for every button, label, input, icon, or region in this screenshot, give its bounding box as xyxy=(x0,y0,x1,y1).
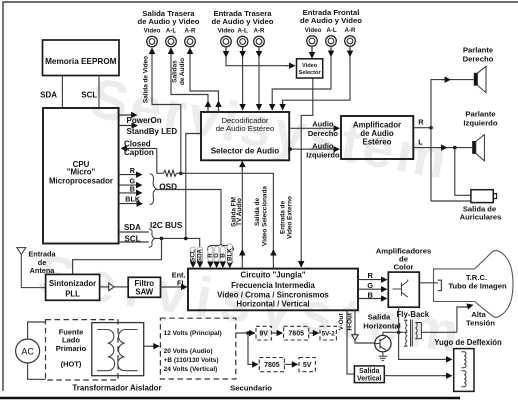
svg-text:Yugo de Deflexión: Yugo de Deflexión xyxy=(434,338,502,347)
svg-text:Selector de Audio: Selector de Audio xyxy=(211,146,280,155)
brace merging I2C bus xyxy=(149,221,183,247)
svg-text:R: R xyxy=(130,166,136,175)
antenna Entrada de Antena xyxy=(17,248,57,288)
wire StandBy LED output xyxy=(119,126,178,137)
svg-text:(HOT): (HOT) xyxy=(61,360,82,369)
svg-text:7805: 7805 xyxy=(288,331,304,338)
resistor (OSD R mix into video out) xyxy=(164,170,177,176)
svg-text:Salidas: Salidas xyxy=(171,60,178,83)
wire H-Out from jungla xyxy=(346,310,375,343)
transistor Q horizontal output xyxy=(375,332,391,352)
wire A-R out (decoder to jack) xyxy=(190,49,219,113)
svg-text:Tensión: Tensión xyxy=(466,319,495,328)
svg-text:G: G xyxy=(367,281,373,290)
wire I2C bus line xyxy=(155,238,200,247)
splitter bracket OSD to RGB xyxy=(208,244,234,251)
wire A-L out (decoder to jack) xyxy=(171,49,208,113)
svg-text:SCL: SCL xyxy=(190,249,197,262)
wire video out jack branch xyxy=(152,53,181,173)
wire rear A-L in (jack to decoder) xyxy=(242,47,244,111)
svg-text:SDA: SDA xyxy=(124,223,141,232)
box Fuente Lado Primario (HOT) dashed xyxy=(46,320,119,380)
svg-text:A-L: A-L xyxy=(326,27,337,34)
wire rear video in (jack to video selector) xyxy=(226,47,295,66)
svg-text:SDA: SDA xyxy=(197,248,204,262)
node video/CC junction xyxy=(179,172,183,176)
wire 9V to 7805 xyxy=(272,332,283,334)
wire PowerOn output xyxy=(119,115,162,125)
wire R speaker output xyxy=(413,80,473,130)
svg-text:Video Externo: Video Externo xyxy=(287,196,294,239)
svg-text:Izquierdo: Izquierdo xyxy=(306,150,340,159)
wire OSD G output xyxy=(119,176,142,185)
svg-text:SCL: SCL xyxy=(81,91,97,100)
wire arrow salida de video seleccionada (up) xyxy=(272,250,274,258)
speaker Parlante Derecho xyxy=(463,45,494,92)
svg-text:"Micro": "Micro" xyxy=(67,168,96,177)
svg-text:A-R: A-R xyxy=(254,28,266,35)
AC source xyxy=(16,339,40,363)
svg-text:7805: 7805 xyxy=(264,362,280,369)
svg-text:Memoria EEPROM: Memoria EEPROM xyxy=(45,57,117,66)
svg-text:Salida de Video: Salida de Video xyxy=(143,56,150,103)
regulator 9V dashed xyxy=(256,326,272,340)
svg-text:24 Volts (Vertical): 24 Volts (Vertical) xyxy=(164,366,218,373)
connector RCA A-L front in xyxy=(326,36,337,47)
svg-text:Salida: Salida xyxy=(359,368,379,375)
svg-text:B: B xyxy=(367,291,373,300)
svg-text:Caption: Caption xyxy=(124,148,154,157)
IC Amplificador de Audio Estereo xyxy=(341,116,413,159)
wire 12V branch down to second 7805 xyxy=(248,333,250,364)
connector RCA A-R rear in xyxy=(254,36,265,47)
node 12V junction xyxy=(246,331,250,335)
speaker Parlante Izquierdo xyxy=(463,109,497,161)
svg-text:Secundario: Secundario xyxy=(230,383,272,392)
tag G into jungla xyxy=(213,247,220,268)
wire B to color amp xyxy=(358,291,387,300)
wire G to color amp xyxy=(358,281,387,290)
svg-text:B: B xyxy=(219,253,226,258)
svg-text:12 Volts (Principal): 12 Volts (Principal) xyxy=(164,330,222,337)
CRT socket bracket xyxy=(438,280,442,291)
svg-text:A-L: A-L xyxy=(237,28,248,35)
svg-text:Selector: Selector xyxy=(299,70,322,76)
svg-text:Parlante: Parlante xyxy=(463,45,494,54)
svg-text:I2C BUS: I2C BUS xyxy=(150,221,183,230)
svg-text:9V: 9V xyxy=(259,331,268,338)
wire R to color amp xyxy=(358,271,387,280)
wire I2C to decodificador xyxy=(186,134,201,239)
regulator 5V dashed xyxy=(299,358,315,372)
node I2C junction to decoder xyxy=(184,237,188,241)
wire OSD R output xyxy=(119,166,142,175)
tag R into jungla xyxy=(207,247,214,268)
wire IF into jungla xyxy=(161,271,187,288)
svg-text:Circuito "Jungla": Circuito "Jungla" xyxy=(241,270,306,279)
svg-text:Audio: Audio xyxy=(312,141,334,150)
connector RCA A-L rear in xyxy=(237,36,248,47)
svg-text:Color: Color xyxy=(393,262,413,271)
svg-text:Fly-Back: Fly-Back xyxy=(397,310,430,319)
wire headphone L branch xyxy=(455,148,471,196)
box Salida Vertical xyxy=(354,366,384,383)
wire horizontal deflection to yoke xyxy=(399,332,451,359)
node I2C junction to tuner xyxy=(160,237,164,241)
svg-text:de Audio Estéreo: de Audio Estéreo xyxy=(216,124,275,133)
wire color amp to CRT socket xyxy=(419,282,438,284)
brace merging OSD lines xyxy=(150,174,177,205)
wire front video in (jack to video selector) xyxy=(311,46,313,58)
svg-text:Salida de: Salida de xyxy=(254,198,261,227)
svg-text:Video / Croma / Sincronismos: Video / Croma / Sincronismos xyxy=(217,290,329,299)
svg-text:de Audio y Video: de Audio y Video xyxy=(300,16,362,25)
tuner Sintonizador PLL xyxy=(46,274,100,300)
svg-text:SCL: SCL xyxy=(125,235,141,244)
svg-text:SAW: SAW xyxy=(135,288,153,297)
svg-text:BLK: BLK xyxy=(226,248,233,261)
wire selected video line (to video out jack / from jungla) xyxy=(157,173,274,268)
svg-text:Video: Video xyxy=(302,63,318,69)
wire SDA (EEPROM to CPU) xyxy=(40,76,62,108)
wire OSD B output xyxy=(119,184,142,193)
wire entrada de video externo (selector to jungla) xyxy=(279,78,312,267)
wire L speaker output xyxy=(413,138,472,150)
memory IC Memoria EEPROM xyxy=(43,40,120,76)
yoke Yugo de Deflexion xyxy=(434,338,502,391)
svg-text:de Audio y Video: de Audio y Video xyxy=(138,17,200,26)
box Secundario voltages dashed xyxy=(160,318,272,392)
connector RCA video out xyxy=(147,36,158,47)
svg-text:Auriculares: Auriculares xyxy=(460,212,502,221)
tag SCL into jungla xyxy=(190,247,197,267)
IC Decodificador de Audio Estereo / Selector de Audio xyxy=(201,112,289,160)
svg-text:Video: Video xyxy=(218,28,235,35)
svg-text:PowerOn: PowerOn xyxy=(127,116,162,125)
svg-text:Sintonizador: Sintonizador xyxy=(49,279,96,288)
svg-text:A-L: A-L xyxy=(166,28,177,35)
wire SCL from CPU xyxy=(119,235,149,244)
svg-text:Video: Video xyxy=(144,28,161,35)
wire front A-R in (jack to decoder) xyxy=(283,46,350,110)
wire vertical deflection to yoke xyxy=(384,375,451,377)
svg-text:BLK: BLK xyxy=(125,195,141,204)
svg-text:Entrada de: Entrada de xyxy=(279,201,286,234)
svg-text:Microprocesador: Microprocesador xyxy=(49,177,113,186)
svg-text:Tubo de Imagen: Tubo de Imagen xyxy=(448,282,507,291)
IC Circuito Jungla xyxy=(188,269,358,311)
wire audio izquierdo (decoder to amplifier) xyxy=(288,141,340,159)
connector RCA A-R front in xyxy=(345,36,356,47)
wire Closed Caption input xyxy=(122,140,157,174)
connector RCA video front in xyxy=(307,36,318,47)
svg-text:Derecho: Derecho xyxy=(463,55,494,64)
wire salida FM TV audio (jungla to selector) xyxy=(230,162,243,269)
svg-text:Salida: Salida xyxy=(368,313,391,322)
svg-text:R: R xyxy=(367,271,373,280)
tag B into jungla xyxy=(219,247,226,268)
wire flyback primary line xyxy=(383,331,457,333)
svg-text:+B (110/130 Volts): +B (110/130 Volts) xyxy=(164,357,219,364)
wire AC to primary (top) xyxy=(28,322,46,339)
wire 12V rail xyxy=(236,332,255,334)
tag SDA into jungla xyxy=(197,247,204,267)
svg-text:Frecuencia Intermedia: Frecuencia Intermedia xyxy=(231,281,315,290)
wire OSD BLK output xyxy=(119,195,142,204)
svg-text:5V-2: 5V-2 xyxy=(322,331,336,338)
tag BLK into jungla xyxy=(226,244,233,268)
svg-text:Parlante: Parlante xyxy=(465,109,496,118)
wire alta tension to CRT xyxy=(457,305,495,332)
svg-text:Video: Video xyxy=(305,27,322,34)
ground under horizontal transistor xyxy=(379,352,387,361)
wire SDA from CPU xyxy=(119,223,149,232)
svg-text:Izquierdo: Izquierdo xyxy=(463,119,497,128)
regulator 5V-2 dashed xyxy=(320,326,336,340)
connector group title salida trasera xyxy=(138,9,200,35)
svg-text:L: L xyxy=(418,138,423,147)
svg-text:5V: 5V xyxy=(303,362,312,369)
svg-text:de Audio: de Audio xyxy=(179,58,186,85)
svg-text:Derecho: Derecho xyxy=(308,129,338,138)
transformer Transformador Aislador xyxy=(72,323,161,393)
wire front A-L in (jack to decoder) xyxy=(272,46,331,110)
wire rear A-R in (jack to decoder) xyxy=(258,47,260,111)
node flyback junction xyxy=(397,331,401,335)
buffer triangle (tuner IF output) xyxy=(100,283,128,291)
connector group title entrada frontal xyxy=(300,8,362,34)
svg-text:Vertical: Vertical xyxy=(357,376,382,383)
svg-text:de Audio y Video: de Audio y Video xyxy=(212,17,274,26)
wire headphone R branch xyxy=(431,128,471,201)
svg-text:TV Audio: TV Audio xyxy=(236,198,243,226)
svg-text:A-R: A-R xyxy=(185,28,197,35)
wire audio derecho (decoder to amplifier) xyxy=(289,120,339,138)
label Salida Horizontal xyxy=(363,313,401,331)
svg-text:AC: AC xyxy=(21,347,34,357)
svg-text:R: R xyxy=(418,118,424,127)
wire transformer to secondary xyxy=(144,345,159,347)
connector RCA video rear in xyxy=(221,36,232,47)
svg-text:PLL: PLL xyxy=(65,289,80,298)
svg-text:Transformador Aislador: Transformador Aislador xyxy=(72,383,161,392)
wire V-Out from jungla xyxy=(338,310,354,374)
svg-text:Horizontal: Horizontal xyxy=(363,322,401,331)
wire color amp supply from flyback xyxy=(398,307,400,332)
svg-text:Filtro: Filtro xyxy=(135,279,155,288)
transistor inside color amp xyxy=(393,280,408,298)
connector group title entrada trasera xyxy=(212,9,274,35)
svg-text:Audio: Audio xyxy=(312,120,334,129)
wire 7805 to 5V xyxy=(284,363,297,365)
CPU microprocessor box xyxy=(43,108,119,244)
wire 7805 to 5V-2 xyxy=(309,332,319,334)
svg-text:20 Volts (Audio): 20 Volts (Audio) xyxy=(164,348,213,355)
connector RCA A-R out xyxy=(185,36,196,47)
label salidas de audio (rotated) xyxy=(171,58,185,85)
box Video Selector xyxy=(297,59,323,78)
wire AC to primary (bottom) xyxy=(28,363,46,379)
filter Filtro SAW xyxy=(128,277,160,297)
watermark xyxy=(34,66,463,364)
svg-text:A-R: A-R xyxy=(345,27,357,34)
svg-text:V-Out: V-Out xyxy=(338,313,345,331)
wire OSD bus to jungla xyxy=(156,190,221,244)
wire SCL (EEPROM to CPU) xyxy=(81,76,99,108)
regulator 7805 dashed xyxy=(284,326,309,340)
svg-text:Video Seleccionada: Video Seleccionada xyxy=(262,186,269,246)
svg-text:Estéreo: Estéreo xyxy=(363,138,392,147)
svg-text:Horizontal / Vertical: Horizontal / Vertical xyxy=(236,300,309,309)
svg-text:H-Out: H-Out xyxy=(346,312,353,330)
transformer Fly-Back xyxy=(397,310,430,347)
svg-text:B: B xyxy=(130,184,135,193)
label salida de video seleccionada xyxy=(254,186,268,246)
connector RCA A-L out xyxy=(166,36,177,47)
connector Salida de Auriculares jack xyxy=(460,190,502,222)
wire I2C to sintonizador xyxy=(73,238,162,274)
CRT T.R.C. Tubo de Imagen xyxy=(434,251,514,318)
amplifier Amplificadores de Color xyxy=(376,247,432,308)
svg-text:StandBy LED: StandBy LED xyxy=(127,127,178,136)
svg-text:FI: FI xyxy=(177,279,184,288)
regulator 7805 (second) dashed xyxy=(259,358,284,372)
svg-text:SDA: SDA xyxy=(40,91,57,100)
svg-text:Primario: Primario xyxy=(56,344,87,353)
